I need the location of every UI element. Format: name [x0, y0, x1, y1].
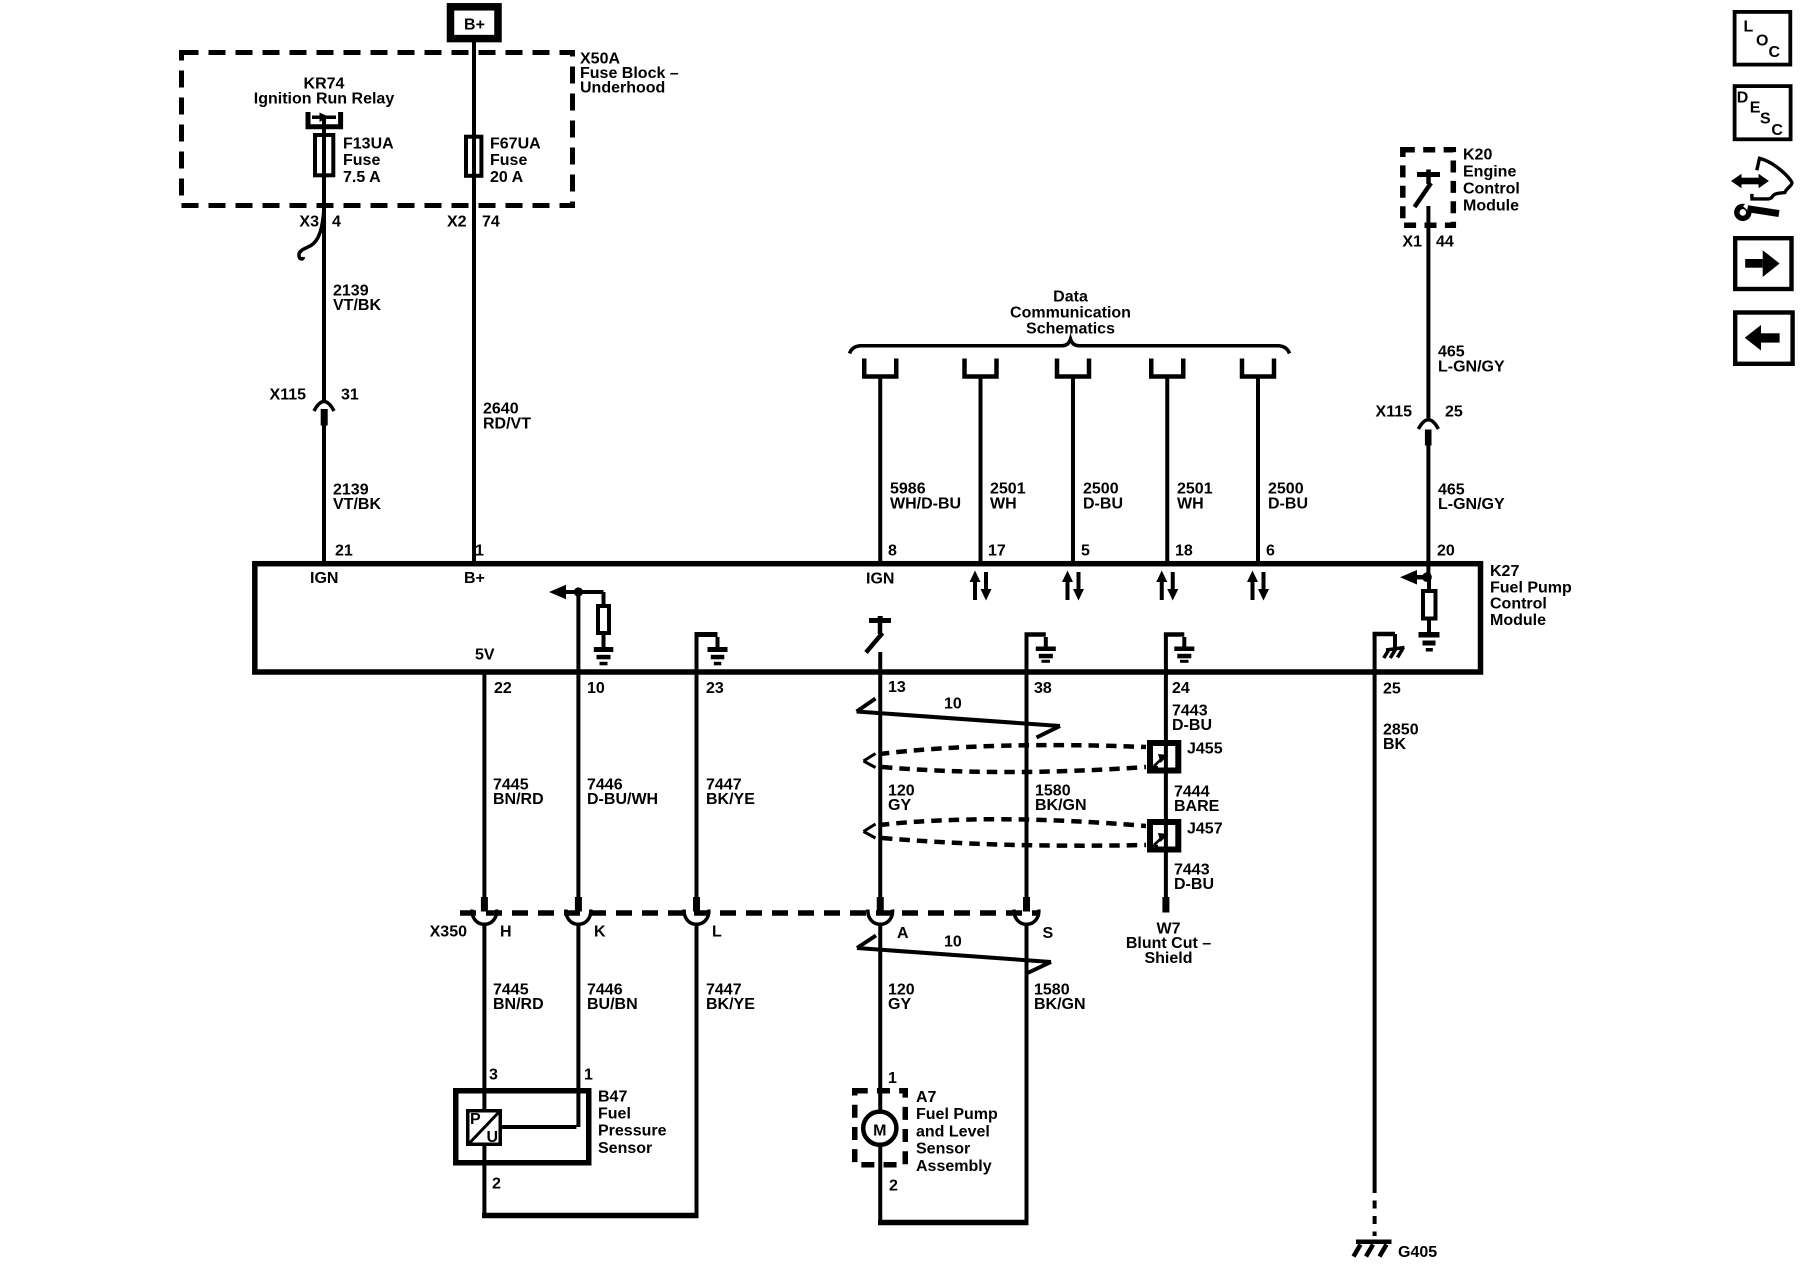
svg-text:Schematics: Schematics	[1026, 320, 1115, 337]
svg-text:2: 2	[492, 1176, 501, 1193]
svg-text:C: C	[1771, 122, 1783, 139]
svg-text:P: P	[470, 1111, 481, 1128]
svg-text:7.5 A: 7.5 A	[343, 169, 381, 186]
svg-text:10: 10	[587, 680, 605, 697]
svg-text:S: S	[1043, 925, 1054, 942]
svg-text:A: A	[897, 925, 909, 942]
svg-text:D-BU: D-BU	[1172, 717, 1212, 734]
svg-text:Module: Module	[1490, 612, 1546, 629]
svg-text:25: 25	[1383, 681, 1401, 698]
svg-text:D-BU: D-BU	[1268, 495, 1308, 512]
svg-text:D-BU/WH: D-BU/WH	[587, 791, 658, 808]
svg-text:and Level: and Level	[916, 1123, 990, 1140]
svg-text:BK/GN: BK/GN	[1035, 797, 1087, 814]
svg-text:Fuel: Fuel	[598, 1106, 631, 1123]
svg-text:Sensor: Sensor	[598, 1140, 652, 1157]
svg-text:K20: K20	[1463, 147, 1492, 164]
svg-text:Communication: Communication	[1010, 305, 1131, 322]
svg-text:VT/BK: VT/BK	[333, 297, 381, 314]
svg-text:IGN: IGN	[310, 570, 338, 587]
svg-text:24: 24	[1172, 680, 1190, 697]
svg-text:20: 20	[1437, 543, 1455, 560]
svg-text:Underhood: Underhood	[580, 80, 665, 97]
svg-text:1: 1	[475, 543, 484, 560]
svg-text:BK/GN: BK/GN	[1034, 996, 1086, 1013]
svg-text:1: 1	[888, 1070, 897, 1087]
svg-text:B47: B47	[598, 1089, 627, 1106]
svg-text:1: 1	[584, 1067, 593, 1084]
svg-text:Module: Module	[1463, 198, 1519, 215]
svg-text:GY: GY	[888, 797, 911, 814]
svg-text:O: O	[1756, 32, 1768, 49]
svg-text:X115: X115	[1376, 404, 1413, 421]
svg-text:GY: GY	[888, 996, 911, 1013]
svg-text:WH: WH	[1177, 495, 1204, 512]
svg-text:Ignition Run Relay: Ignition Run Relay	[254, 91, 395, 108]
svg-text:17: 17	[988, 543, 1006, 560]
svg-text:WH/D-BU: WH/D-BU	[890, 495, 961, 512]
svg-text:2: 2	[889, 1178, 898, 1195]
svg-text:IGN: IGN	[866, 571, 894, 588]
svg-text:WH: WH	[990, 495, 1017, 512]
svg-text:L: L	[1744, 19, 1754, 36]
svg-text:8: 8	[888, 543, 897, 560]
svg-text:31: 31	[341, 387, 359, 404]
svg-text:Fuel Pump: Fuel Pump	[1490, 579, 1572, 596]
svg-text:BK: BK	[1383, 736, 1407, 753]
svg-text:M: M	[873, 1122, 886, 1139]
svg-text:5V: 5V	[475, 647, 495, 664]
svg-text:S: S	[1760, 110, 1771, 127]
svg-text:Shield: Shield	[1144, 950, 1192, 967]
svg-text:G405: G405	[1398, 1244, 1437, 1261]
svg-text:Fuel Pump: Fuel Pump	[916, 1106, 998, 1123]
svg-text:K27: K27	[1490, 563, 1519, 580]
svg-text:44: 44	[1436, 234, 1454, 251]
svg-text:BK/YE: BK/YE	[706, 791, 755, 808]
svg-text:X2: X2	[447, 214, 467, 231]
svg-text:Sensor: Sensor	[916, 1141, 970, 1158]
svg-text:K: K	[594, 924, 606, 941]
svg-text:6: 6	[1266, 543, 1275, 560]
svg-text:D-BU: D-BU	[1083, 495, 1123, 512]
svg-text:A7: A7	[916, 1089, 937, 1106]
svg-text:U: U	[487, 1129, 499, 1146]
svg-text:Assembly: Assembly	[916, 1158, 992, 1175]
svg-text:25: 25	[1445, 404, 1463, 421]
svg-text:Control: Control	[1490, 596, 1547, 613]
svg-text:B+: B+	[464, 17, 485, 34]
svg-text:13: 13	[888, 679, 906, 696]
svg-text:BARE: BARE	[1174, 798, 1220, 815]
svg-text:F13UA: F13UA	[343, 136, 394, 153]
svg-text:BN/RD: BN/RD	[493, 996, 544, 1013]
svg-text:C: C	[1769, 44, 1781, 61]
svg-text:20 A: 20 A	[490, 169, 524, 186]
svg-text:RD/VT: RD/VT	[483, 415, 531, 432]
svg-text:10: 10	[944, 696, 962, 713]
svg-text:D: D	[1737, 89, 1749, 106]
svg-text:L-GN/GY: L-GN/GY	[1438, 496, 1505, 513]
svg-text:X3: X3	[299, 214, 319, 231]
svg-text:F67UA: F67UA	[490, 136, 541, 153]
svg-text:J457: J457	[1187, 821, 1223, 838]
svg-text:5: 5	[1081, 543, 1090, 560]
svg-text:Data: Data	[1053, 289, 1088, 306]
svg-text:B+: B+	[464, 570, 485, 587]
svg-text:Pressure: Pressure	[598, 1123, 667, 1140]
svg-text:D-BU: D-BU	[1174, 876, 1214, 893]
svg-text:22: 22	[494, 680, 512, 697]
svg-text:BU/BN: BU/BN	[587, 996, 638, 1013]
svg-text:X115: X115	[270, 387, 307, 404]
svg-text:23: 23	[706, 680, 724, 697]
svg-text:L: L	[712, 924, 722, 941]
svg-text:BN/RD: BN/RD	[493, 791, 544, 808]
svg-text:4: 4	[332, 214, 341, 231]
svg-text:H: H	[500, 924, 512, 941]
svg-text:Fuse: Fuse	[490, 152, 527, 169]
svg-text:74: 74	[482, 214, 500, 231]
svg-text:X350: X350	[430, 924, 467, 941]
svg-text:10: 10	[944, 934, 962, 951]
svg-text:3: 3	[489, 1067, 498, 1084]
svg-text:18: 18	[1175, 543, 1193, 560]
svg-text:L-GN/GY: L-GN/GY	[1438, 358, 1505, 375]
svg-text:21: 21	[335, 543, 353, 560]
svg-text:X1: X1	[1402, 234, 1422, 251]
svg-text:Fuse: Fuse	[343, 152, 380, 169]
svg-text:Control: Control	[1463, 181, 1520, 198]
svg-text:J455: J455	[1187, 741, 1223, 758]
svg-text:BK/YE: BK/YE	[706, 996, 755, 1013]
svg-text:Engine: Engine	[1463, 164, 1516, 181]
svg-text:38: 38	[1034, 680, 1052, 697]
svg-text:VT/BK: VT/BK	[333, 496, 381, 513]
